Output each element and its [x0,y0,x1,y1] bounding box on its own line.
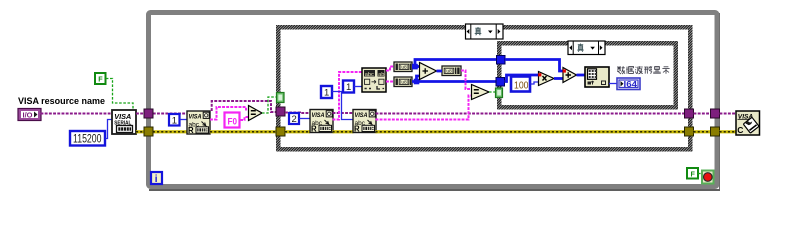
wire error inside case: tunnel to read2 [285,130,310,133]
VISA Close node [736,111,760,135]
numeric constant 1 (case, to read3) [321,86,332,99]
svg-text:2: 2 [292,114,297,125]
wire 2 to read2 [299,118,310,120]
glyph shi [662,67,669,74]
wire array inside: tunnel2 to multiply [505,75,539,82]
loop tunnel olive [144,127,153,136]
boolean constant F (loop stop) [687,168,698,179]
byte array to string node [442,66,461,76]
add node 1 [420,63,437,80]
svg-text:R: R [188,126,194,135]
svg-text:1: 1 [172,115,177,126]
glyph ju [626,66,633,73]
wire error yellow: config to loop tunnel to read1 [136,130,187,133]
wire string pink: read3 buffer to equals2 [376,96,472,120]
string constant F0 [225,113,240,128]
glyph bo [635,66,643,74]
wire error: loop to VISA close [720,130,737,133]
wire pink: subset out1 to conv1 [386,67,394,71]
svg-text:VISA: VISA [312,112,325,119]
glyph zhen (true) [475,27,482,35]
svg-text:i: i [155,174,158,185]
inner case selector tunnel [496,88,503,98]
wire error: read2 to read3 [333,130,354,133]
inner case tunnel blue 1 [497,56,506,65]
numeric constant 2 [289,113,299,125]
outer case selector tunnel [277,93,285,103]
wire pink: u8tostring to equals2 [461,71,472,90]
wire error: read3 to case tunnel right [376,130,685,133]
wire boolean to stop terminal [698,173,702,175]
equal? node 1 [249,106,263,121]
wire add1 to u8tostring [437,70,443,73]
svg-text:abc: abc [365,72,374,78]
boolean constant F (left) [95,73,106,84]
loop condition terminal (stop) [702,171,714,184]
case tunnel purple left [276,107,285,116]
glyph xing [644,66,652,74]
equal? node 2 [472,85,490,100]
VISA Read node 3 [353,110,376,134]
wire purple: read2 to read3 [333,112,354,114]
I64 indicator terminal [617,78,640,90]
glyph shu [617,66,625,74]
svg-text:VISA resource name: VISA resource name [18,95,105,106]
wire 1 to read1 [180,119,187,121]
outer case structure border [276,25,693,152]
wire F0 to equals1 [240,117,249,120]
numeric constant 1 (case, to subset) [343,81,354,94]
label shu-ju-bo-xing-xian-shi (data waveform display) [617,66,669,74]
glyph xian [653,66,661,73]
svg-text:I/O: I/O [23,112,34,119]
wire boolean: F const to config node [106,79,133,111]
svg-text:VISA: VISA [189,114,202,121]
inner case tunnel blue 2 [496,78,505,87]
case tunnel olive left [276,127,285,136]
wire string pink: read1 buffer to equals1 [210,107,249,120]
svg-text:F: F [691,169,696,178]
wire multiply to add2 [554,77,563,80]
wire VISA purple: read1 up-over to case tunnel [212,101,277,112]
wire chart node to I64 terminal [609,83,617,85]
wire 1 to read3 [332,92,353,120]
loop tunnel olive right [711,127,720,136]
junction dot [414,79,420,85]
wire error: read1 to case tunnel [210,130,277,133]
svg-text:R: R [311,125,317,134]
wire purple: case to loop tunnel [694,113,711,115]
svg-text:R: R [354,125,360,134]
wire 1 to subset [354,86,362,88]
VISA Configure Serial Port node [112,110,136,134]
VISA resource name I/O control [18,109,41,121]
wire array: conv2 long to tunnel2 and branch to add1 [412,80,496,83]
string to byte array node 2 [394,77,412,87]
add node 2 [563,68,577,83]
wire 115200 to config node [106,120,113,139]
svg-text:1: 1 [324,88,329,99]
while loop border [149,13,721,191]
numeric constant 1 (read1 count) [169,114,180,126]
numeric constant 100 [511,77,530,92]
wire purple: loop to VISA close [720,113,737,115]
VISA Read node 1 [187,111,210,135]
wire boolean: equals2 to inner selector [489,91,496,93]
waveform buffer node [585,67,609,87]
inner case structure border [497,41,678,110]
svg-text:F: F [98,75,103,84]
svg-text:C: C [737,125,743,135]
wire purple inside case: tunnel to read2 [285,112,310,115]
case tunnel olive right [685,127,694,136]
wire error: case to loop tunnel [694,130,711,133]
wire pink: subset out2 to conv2 [386,81,394,83]
case tunnel purple right [685,109,694,118]
svg-text:115200: 115200 [73,132,102,146]
svg-text:[u8]: [u8] [400,80,408,86]
string to byte array node 1 [394,62,412,72]
VISA Read node 2 [310,110,333,134]
junction dot [412,64,418,70]
loop tunnel purple right [711,109,720,118]
string subset node [362,68,386,92]
svg-text:[u8]: [u8] [445,69,453,75]
wire string pink: read2 buffer up to subset [333,72,363,120]
outer case selector label [466,24,504,39]
wire VISA purple: config to read1 [136,113,187,115]
svg-text:ab: ab [378,72,384,78]
wire purple: read3 to case tunnel right [376,113,686,115]
glyph zhen (true) [577,44,584,52]
svg-text:F0: F0 [228,116,238,127]
loop iteration terminal i [151,172,162,185]
inner case selector label [568,41,605,55]
wire 100 to multiply [531,82,539,84]
wire add2 to chart node [577,74,586,77]
wire array: conv1 to add1 and long branch [412,65,420,68]
svg-text:I64: I64 [624,80,638,89]
wire array inside inner case: tunnel1 to add2 [505,60,563,72]
numeric constant 115200 [70,131,105,146]
svg-text:VISA: VISA [355,112,368,119]
svg-text:[u8]: [u8] [400,65,408,71]
svg-text:1: 1 [346,82,351,93]
svg-text:100: 100 [514,79,529,91]
wire VISA purple: control to config node [41,113,113,115]
loop tunnel purple [144,109,153,118]
multiply node [538,72,554,86]
wire boolean: equals1 to case selector [262,97,276,113]
